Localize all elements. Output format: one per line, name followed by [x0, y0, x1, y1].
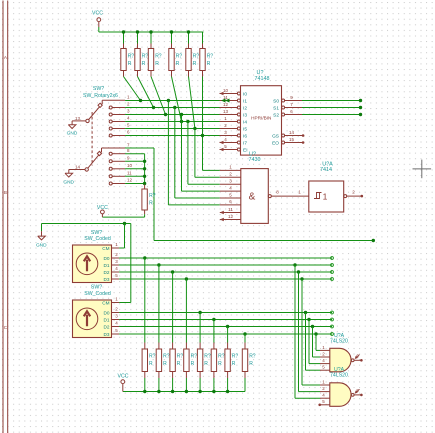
rotary contact pin 9	[109, 160, 112, 163]
resistor R2 (pull-up)	[137, 32, 139, 44]
svg-text:GND: GND	[67, 131, 78, 137]
wire coded switch data row	[119, 312, 332, 314]
wire GND bus to CM pins	[42, 223, 131, 225]
svg-text:I4: I4	[243, 119, 247, 125]
svg-text:R: R	[193, 61, 197, 67]
svg-text:I5: I5	[243, 126, 247, 132]
schmitt inverter U?A 7414	[309, 181, 344, 212]
wire to gate1 pin5	[305, 313, 307, 371]
U? 7430 pin 11	[220, 212, 241, 214]
svg-text:R?: R?	[191, 354, 198, 360]
svg-text:R: R	[207, 61, 211, 67]
wire R7 to VCC	[144, 214, 146, 217]
wire R1 to row 1	[124, 77, 141, 101]
svg-text:I3: I3	[243, 112, 247, 118]
wire row tap down to R8	[144, 258, 146, 343]
wire row 1 down to NAND pin 6	[167, 101, 169, 205]
junction at top bus above R1	[122, 30, 125, 33]
svg-text:D3: D3	[104, 332, 110, 337]
junction at top bus above R2	[136, 30, 139, 33]
svg-text:SW?: SW?	[91, 285, 102, 291]
wire coded switch data row	[119, 278, 332, 280]
long wire from rotary pin 7	[154, 240, 373, 242]
wire to gate1 pin2	[312, 327, 314, 358]
U? pin 10 (I0)	[237, 92, 240, 95]
wire output S to right	[302, 114, 361, 116]
wire row tap down to R12	[199, 313, 201, 343]
wire to gate1 pin1	[315, 334, 317, 350]
U? pin 2 (I5)	[237, 127, 240, 130]
U? pin 7 (S1)	[282, 106, 285, 109]
svg-text:11: 11	[228, 207, 233, 212]
U? 7430 pin 12	[220, 219, 241, 221]
rotary contact pin 11	[109, 175, 112, 178]
resistor R7 (mid pull-up)	[144, 185, 146, 190]
wire row tap down to R11	[185, 279, 187, 343]
mechanical link dashed line	[91, 112, 93, 166]
wire pin7 down to long output line	[153, 148, 155, 241]
wire R15 to VCC bus	[244, 378, 246, 392]
U? pin 9 (S0)	[282, 99, 285, 102]
svg-text:10: 10	[223, 88, 229, 93]
wire row 3 down to NAND pin 4	[181, 115, 183, 192]
svg-text:S0: S0	[273, 98, 279, 104]
svg-text:S2: S2	[273, 112, 279, 118]
wire coded switch data row	[119, 257, 332, 259]
svg-text:D0: D0	[104, 256, 110, 261]
resistor R14	[225, 349, 230, 372]
svg-text:EI: EI	[243, 147, 248, 153]
svg-text:R: R	[232, 361, 236, 367]
svg-text:12: 12	[223, 102, 229, 107]
svg-text:D2: D2	[104, 324, 110, 329]
rotary contact pin 3	[109, 113, 112, 116]
svg-text:12: 12	[228, 214, 234, 219]
U? pin 14 (GS)	[282, 134, 285, 137]
resistor R6 (pull-up)	[202, 32, 204, 44]
wire R2 to row 2	[138, 77, 154, 108]
rotary contact pin 8	[109, 152, 112, 155]
wire R10 to VCC bus	[172, 378, 174, 392]
svg-text:1: 1	[323, 192, 328, 202]
resistor R4 (pull-up)	[171, 32, 173, 44]
svg-text:74LS20: 74LS20	[330, 339, 348, 345]
svg-text:13: 13	[75, 116, 81, 121]
svg-text:74LS20: 74LS20	[330, 373, 348, 379]
cursor crosshair	[413, 168, 432, 170]
U? 7430 pin 6	[220, 204, 241, 206]
svg-text:R: R	[149, 361, 153, 367]
U? 7430 pin 1	[220, 169, 241, 171]
wire output S to right	[302, 107, 361, 109]
U? pin 1 (I4)	[237, 120, 240, 123]
svg-text:R: R	[163, 361, 167, 367]
svg-text:R?: R?	[218, 354, 225, 360]
resistor R13	[211, 349, 216, 372]
wire R5 to row 5	[189, 77, 195, 129]
svg-text:D3: D3	[104, 277, 110, 282]
svg-text:I6: I6	[243, 133, 247, 139]
svg-text:SW_Coded: SW_Coded	[84, 236, 111, 242]
svg-text:EO: EO	[272, 140, 279, 146]
bottom VCC bus	[123, 391, 245, 393]
rotary contact pin 10	[109, 167, 112, 170]
svg-text:I1: I1	[243, 98, 247, 104]
svg-text:R?: R?	[232, 354, 239, 360]
svg-text:I7: I7	[243, 140, 247, 146]
wire R12 to VCC bus	[199, 378, 201, 392]
svg-text:R?: R?	[176, 54, 183, 60]
no-connect arrows on pins 10,4,5	[220, 92, 224, 96]
wire coded switch data row	[119, 319, 332, 321]
wire pin 8 to bus	[125, 153, 145, 155]
resistor R15	[242, 349, 247, 372]
wire R13 to VCC bus	[213, 378, 215, 392]
svg-text:14: 14	[75, 165, 81, 170]
svg-text:R?: R?	[128, 54, 135, 60]
U? pin 3 (I6)	[237, 134, 240, 137]
wire R4 to row 4	[172, 77, 182, 122]
resistor R1 (pull-up)	[123, 32, 125, 44]
junctions rows 1-6	[139, 99, 142, 102]
wire row tap down to R9	[158, 265, 160, 343]
svg-text:B: B	[4, 190, 7, 195]
U? pin 4 (I7)	[237, 141, 240, 144]
svg-text:D2: D2	[104, 270, 110, 275]
svg-text:CM: CM	[102, 300, 109, 305]
wire to gate2 pin1	[301, 279, 303, 385]
wire R11 to VCC bus	[185, 378, 187, 392]
no-connect arrows pins 11,12	[220, 211, 224, 215]
wire row 2 to chip	[125, 107, 219, 109]
wire row tap down to R15	[244, 334, 246, 343]
resistor R10	[170, 349, 175, 372]
wire to gate2 pin2	[298, 272, 300, 392]
svg-text:R: R	[176, 61, 180, 67]
svg-text:R?: R?	[177, 354, 184, 360]
wire row 6 to chip	[125, 135, 219, 137]
wire row 5 down to NAND pin 2	[194, 129, 196, 178]
wire row 2 down to NAND pin 5	[174, 108, 176, 199]
ERC marker at pin 11	[221, 99, 226, 103]
U? pin 13 (I3)	[237, 113, 240, 116]
svg-text:R?: R?	[207, 54, 214, 60]
wire R14 to VCC bus	[227, 378, 229, 392]
svg-text:I0: I0	[243, 91, 247, 97]
wire coded switch data row	[119, 333, 332, 335]
svg-text:GND: GND	[36, 243, 47, 249]
dangling ends GS EO	[302, 134, 305, 137]
svg-text:R: R	[149, 201, 153, 207]
U? 7430 pin 2	[220, 176, 241, 178]
resistor R9	[156, 349, 161, 372]
resistor R12	[197, 349, 202, 372]
resistor R8	[142, 349, 147, 372]
wire row tap down to R10	[172, 272, 174, 343]
vertical bus contacts 8-12	[144, 154, 146, 185]
ground GND (upper rotary)	[71, 121, 73, 125]
ground GND (coded switches)	[41, 224, 43, 232]
wire row tap down to R14	[227, 327, 229, 343]
svg-text:&: &	[249, 192, 256, 203]
wire R8 to VCC bus	[144, 378, 146, 392]
svg-text:R: R	[177, 361, 181, 367]
svg-text:R: R	[142, 61, 146, 67]
U? pin 6 (S2)	[282, 113, 285, 116]
wire pin 12 to bus	[125, 183, 145, 185]
wire R3 to row 3	[151, 77, 166, 115]
wire coded switch data row	[119, 264, 332, 266]
svg-text:GS: GS	[272, 133, 279, 139]
wire R6 column to NAND pin 1	[203, 169, 220, 171]
svg-text:14: 14	[289, 130, 295, 135]
resistor R5 (pull-up)	[188, 32, 190, 44]
wire row 4 down to NAND pin 3	[187, 122, 189, 185]
svg-text:GND: GND	[63, 179, 74, 185]
svg-text:R: R	[191, 361, 195, 367]
svg-text:10: 10	[127, 163, 133, 168]
svg-text:R: R	[218, 361, 222, 367]
svg-text:VCC: VCC	[118, 374, 129, 380]
svg-text:I2: I2	[243, 105, 247, 111]
svg-text:R?: R?	[142, 54, 149, 60]
U? 7430 pin 4	[220, 190, 241, 192]
encoder U? 74148	[241, 86, 282, 155]
wire VCC to pull-up bus	[98, 27, 100, 32]
svg-text:R: R	[204, 361, 208, 367]
U? pin 12 (I2)	[237, 106, 240, 109]
svg-text:11: 11	[223, 95, 228, 100]
resistor R11	[184, 349, 189, 372]
svg-text:R: R	[128, 61, 132, 67]
rotary contact pin 2	[109, 106, 112, 109]
svg-text:HPRI/BIN: HPRI/BIN	[251, 116, 271, 121]
U? pin 5 (EI)	[237, 148, 240, 151]
svg-text:R?: R?	[204, 354, 211, 360]
wire to gate1 pin4	[308, 320, 310, 364]
svg-text:SW?: SW?	[93, 86, 104, 92]
svg-text:12: 12	[127, 178, 133, 183]
wire R6 straight down to row 6 and NAND pin 6	[202, 77, 204, 171]
U?A 7414 output pin 2	[344, 195, 347, 198]
wire pin 9 to bus	[125, 160, 145, 162]
junction at top bus above R3	[149, 30, 152, 33]
wire coded switch data row	[119, 271, 332, 273]
svg-text:D1: D1	[104, 263, 110, 268]
svg-text:74148: 74148	[255, 76, 270, 82]
rotary contact pin 6	[109, 134, 112, 137]
svg-text:7430: 7430	[249, 157, 261, 163]
NAND gate U?A 74LS20 (lower)	[330, 383, 351, 407]
junction at top bus above R5	[187, 30, 190, 33]
svg-text:SW_Rotary2x6: SW_Rotary2x6	[83, 93, 118, 99]
svg-text:11: 11	[127, 170, 132, 175]
svg-text:13: 13	[223, 109, 229, 114]
hysteresis symbol	[314, 193, 322, 199]
svg-text:SW_Coded: SW_Coded	[84, 291, 111, 297]
rotary contact pin 5	[109, 127, 112, 130]
rotary contact pin 4	[109, 120, 112, 123]
U? 7430 pin 3	[220, 183, 241, 185]
svg-text:R?: R?	[163, 354, 170, 360]
junctions on coded switch rows	[143, 256, 146, 259]
svg-text:R?: R?	[193, 54, 200, 60]
svg-text:R?: R?	[149, 193, 156, 199]
wire row 5 to chip	[125, 128, 219, 130]
U? pin 15 (EO)	[282, 141, 285, 144]
ground GND (lower rotary)	[68, 170, 70, 174]
wire pin 11 to bus	[125, 175, 145, 177]
svg-text:R: R	[249, 361, 253, 367]
rotary contact pin 7 wire	[102, 147, 126, 149]
dangling end gate2 pin5	[318, 404, 321, 407]
svg-text:S1: S1	[273, 105, 279, 111]
wire R9 to VCC bus	[158, 378, 160, 392]
svg-text:D1: D1	[104, 317, 110, 322]
svg-text:15: 15	[289, 137, 295, 142]
NAND gate U?A 74LS20 (upper)	[330, 348, 351, 372]
U? 7430 pin 5	[220, 197, 241, 199]
svg-text:VCC: VCC	[92, 11, 103, 17]
wire row 3 to chip	[125, 114, 219, 116]
U? pin 11 (I1)	[237, 99, 240, 102]
svg-text:CM: CM	[102, 246, 109, 251]
resistor R3 (pull-up)	[150, 32, 152, 44]
wire output S to right	[302, 100, 361, 102]
svg-text:7414: 7414	[320, 167, 332, 173]
U? 7430 output pin 8	[268, 195, 271, 198]
wire coded switch data row	[119, 326, 332, 328]
NAND gate U? 7430	[241, 169, 268, 224]
rotary contact pin 1 wire to I1	[102, 99, 125, 101]
wire to gate2 pin4	[294, 265, 296, 398]
svg-text:R?: R?	[249, 354, 256, 360]
svg-text:R: R	[155, 61, 159, 67]
junction at top bus above R4	[170, 30, 173, 33]
svg-text:R?: R?	[155, 54, 162, 60]
sheet border left edge	[2, 1, 4, 433]
rotary contact pin 12	[109, 182, 112, 185]
wire row 4 to chip	[125, 121, 219, 123]
wire row tap down to R13	[213, 320, 215, 343]
svg-text:D0: D0	[104, 310, 110, 315]
svg-text:R?: R?	[149, 354, 156, 360]
wire pin 10 to bus	[125, 168, 145, 170]
